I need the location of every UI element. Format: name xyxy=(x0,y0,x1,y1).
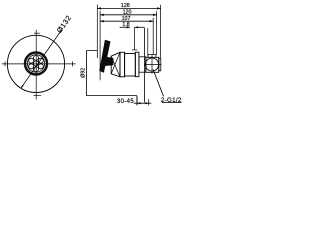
dimension 1.8 left-segment arrow xyxy=(127,26,130,28)
dimension 107 left arrow xyxy=(100,20,104,22)
dimension 107 right arrow xyxy=(150,20,154,22)
body neck through wall xyxy=(139,57,146,72)
dimension 30-45 line xyxy=(134,102,151,104)
G1/2 leader line xyxy=(153,69,164,96)
handle cone diagonal 1 xyxy=(111,56,120,77)
dimension 120 right extension line xyxy=(156,11,158,54)
front view horizontal centerline left tick xyxy=(4,61,6,66)
hub outer dark ring xyxy=(25,53,47,75)
dimension 120 left arrow xyxy=(100,14,104,16)
dimension 30-45 left arrow xyxy=(137,102,140,104)
handle cone xyxy=(111,52,120,77)
socket nipple xyxy=(159,58,161,71)
dimension 1.8 right segment xyxy=(135,26,145,28)
concealed box outline xyxy=(87,51,137,96)
diameter leader line xyxy=(21,28,63,88)
front view horizontal centerline xyxy=(2,63,76,65)
front view vertical centerline top tick xyxy=(34,32,40,34)
svg-text:2-G1/2: 2-G1/2 xyxy=(161,97,182,104)
finished wall second line xyxy=(147,28,149,57)
socket top bump xyxy=(148,55,156,58)
svg-text:Ø92: Ø92 xyxy=(81,68,87,78)
dimension 107 right extension line xyxy=(152,18,154,55)
dimension 30-45 left extension xyxy=(136,96,138,105)
front view vertical centerline bottom tick xyxy=(34,94,42,96)
hub center hole xyxy=(34,61,39,66)
hub small hole lower right xyxy=(38,64,43,69)
hub small hole upper right xyxy=(38,58,43,63)
socket circle xyxy=(145,58,158,71)
socket circle horizontal centerline xyxy=(144,64,161,66)
front view horizontal centerline right tick xyxy=(71,61,73,66)
dimension 1.8 extension vertical xyxy=(134,27,136,50)
hub inner thin circle xyxy=(27,55,44,72)
G1/2 text underline xyxy=(162,102,182,104)
dimension 120 line xyxy=(100,14,157,16)
hub small hole lower left xyxy=(29,64,34,69)
dimension 120 right arrow xyxy=(153,14,157,16)
dimension 120/107 left extension line xyxy=(99,11,101,81)
front view vertical centerline xyxy=(35,30,37,100)
socket circle vertical centerline xyxy=(151,55,153,73)
wall flange xyxy=(135,52,139,76)
handle cone diagonal 2 xyxy=(111,52,120,74)
hub small hole top xyxy=(34,55,39,60)
leader arrowhead xyxy=(21,85,24,88)
hub small hole upper left xyxy=(29,58,34,63)
lever handle shaft xyxy=(99,40,110,73)
escutcheon outer circle xyxy=(7,35,64,92)
svg-text:107: 107 xyxy=(122,16,131,22)
dimension 128 line xyxy=(97,7,160,9)
svg-text:Ø132: Ø132 xyxy=(55,13,74,34)
box front vertical extension below xyxy=(136,96,138,106)
dimension 1.8 right-segment arrow xyxy=(135,26,138,28)
dimension 128 right arrow xyxy=(157,7,161,9)
wall surface line xyxy=(144,28,146,103)
dimension 30-45 right arrow xyxy=(145,102,148,104)
dimension 1.8 left segment xyxy=(120,26,131,28)
valve body xyxy=(125,54,136,77)
dimension 128 right extension line xyxy=(160,5,162,58)
svg-text:128: 128 xyxy=(121,3,130,9)
lever handle base head xyxy=(101,56,113,66)
dimension 128 left arrow xyxy=(97,7,101,9)
hub ring band xyxy=(120,52,125,77)
dimension 30-45 right extension xyxy=(148,99,150,105)
svg-text:1.8: 1.8 xyxy=(122,22,129,28)
socket flange box xyxy=(146,57,159,72)
hub small hole bottom xyxy=(34,67,39,72)
dimension 128 left extension line xyxy=(96,5,98,59)
dimension 107 line xyxy=(100,20,153,22)
svg-text:120: 120 xyxy=(123,9,132,15)
svg-text:30-45: 30-45 xyxy=(117,99,134,105)
dimension 1.8 extension foot xyxy=(132,49,137,51)
